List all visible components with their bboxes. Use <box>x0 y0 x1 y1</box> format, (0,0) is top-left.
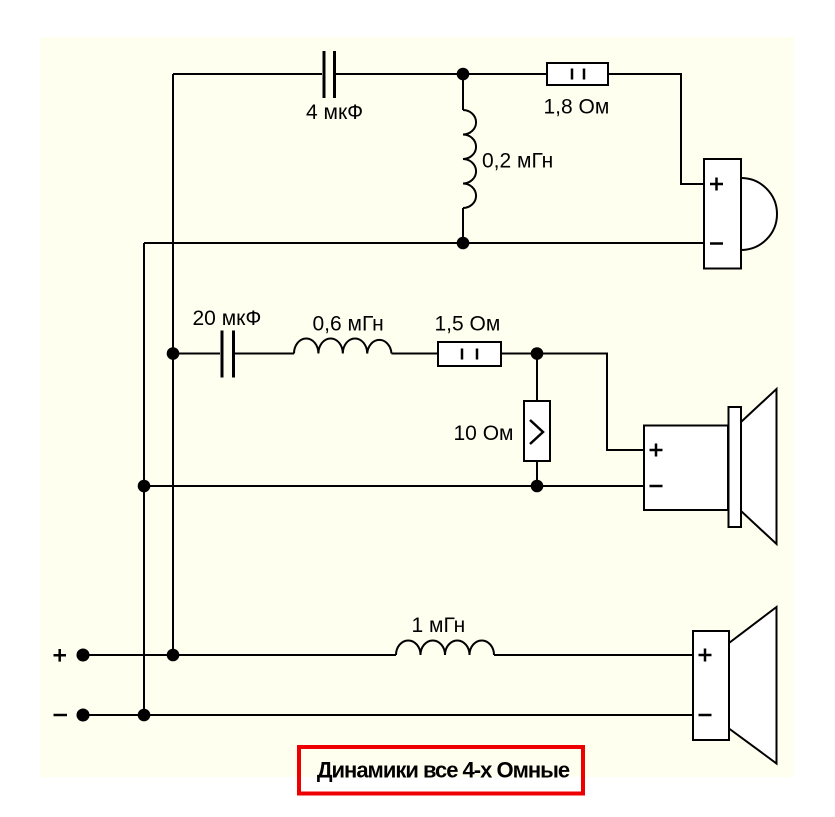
wire: R2 to node D <box>501 353 537 355</box>
input minus sign <box>54 714 68 717</box>
inductor L3 1 мГн <box>396 640 494 655</box>
node E junction dot <box>531 480 544 493</box>
wire: L2 to resistor R2 <box>392 353 439 355</box>
midrange minus sign <box>650 485 663 488</box>
resistor R2 1,5 Ом <box>438 342 501 366</box>
svg-text:20 мкФ: 20 мкФ <box>193 307 262 330</box>
wire: C2 to inductor L2 <box>235 353 294 355</box>
tweeter minus sign <box>710 242 723 245</box>
node G junction dot on rail2 bottom <box>167 649 180 662</box>
wire: second rail y=243 from rail1 to tweeter minus <box>144 242 704 244</box>
woofer speaker body <box>693 607 777 764</box>
node F junction dot on rail1 <box>138 480 151 493</box>
wire: R1 to tweeter plus terminal <box>608 74 704 184</box>
wire: R3 to node E <box>536 461 538 486</box>
svg-text:4 мкФ: 4 мкФ <box>306 101 363 124</box>
wire: node D down to resistor R3 <box>536 354 538 402</box>
svg-text:0,2 мГн: 0,2 мГн <box>482 150 553 173</box>
input plus sign <box>54 649 67 662</box>
tweeter plus sign <box>710 178 723 191</box>
node C junction dot on rail2 at mid row <box>167 347 180 360</box>
wire: plus terminal to inductor L3 <box>83 654 396 656</box>
inductor L2 0,6 мГн <box>294 339 392 354</box>
input minus terminal dot <box>77 709 90 722</box>
svg-text:1 мГн: 1 мГн <box>412 614 466 637</box>
woofer minus sign <box>699 714 712 717</box>
node D junction dot <box>531 347 544 360</box>
wire: lower middle rail from rail1 to midrange minus <box>144 485 644 487</box>
midrange speaker body <box>644 389 777 544</box>
left vertical rail1 <box>143 243 145 715</box>
svg-text:1,5 Ом: 1,5 Ом <box>435 313 501 336</box>
node B junction dot on second rail <box>457 237 470 250</box>
capacitor C1 4 мкФ plates <box>324 51 335 98</box>
left vertical rail2 <box>172 74 174 655</box>
node A junction dot <box>457 68 470 81</box>
svg-text:1,8 Ом: 1,8 Ом <box>544 96 610 119</box>
resistor R3 10 Ом vertical <box>524 401 550 461</box>
wire: node C to capacitor C2 <box>173 353 220 355</box>
wire: L3 to woofer plus terminal <box>494 654 693 656</box>
node H junction dot on rail1 bottom <box>138 709 151 722</box>
tweeter speaker body <box>704 159 777 269</box>
note box red frame <box>299 747 583 794</box>
svg-text:0,6 мГн: 0,6 мГн <box>313 313 384 336</box>
wire: node D to midrange plus terminal <box>537 354 644 451</box>
wire: C1 right plate to node A <box>336 73 463 75</box>
input plus terminal dot <box>77 649 90 662</box>
wire: minus terminal to woofer minus terminal <box>83 714 693 716</box>
resistor R1 1,8 Ом <box>547 63 608 85</box>
capacitor C2 20 мкФ plates <box>222 331 234 378</box>
wire: node A to resistor R1 <box>463 73 547 75</box>
midrange plus sign <box>650 444 663 457</box>
wire: top rail from rail2 corner to capacitor C1 left plate <box>173 73 322 75</box>
svg-text:10 Ом: 10 Ом <box>454 422 514 445</box>
woofer plus sign <box>699 649 712 662</box>
svg-text:Динамики все 4-х Омные: Динамики все 4-х Омные <box>317 758 570 783</box>
inductor L1 0,2 мГн vertical <box>463 74 476 243</box>
